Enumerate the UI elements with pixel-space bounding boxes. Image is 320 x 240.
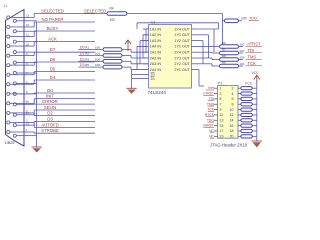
- svg-text:1Y3 OUT: 1Y3 OUT: [174, 33, 190, 37]
- svg-text:2Y1 OUT: 2Y1 OUT: [174, 68, 190, 72]
- svg-text:TDI: TDI: [248, 48, 255, 53]
- svg-text:100: 100: [95, 63, 100, 67]
- svg-text:D3: D3: [80, 63, 85, 67]
- svg-text:100: 100: [241, 17, 247, 21]
- svg-text:14: 14: [230, 119, 234, 123]
- svg-text:D6: D6: [50, 57, 56, 62]
- svg-text:74LS244: 74LS244: [148, 90, 167, 95]
- svg-text:2Y4 OUT: 2Y4 OUT: [174, 51, 190, 55]
- svg-text:100: 100: [95, 57, 100, 61]
- svg-text:100: 100: [110, 18, 116, 22]
- svg-text:100: 100: [240, 49, 245, 53]
- svg-text:SELECTED: SELECTED: [41, 8, 64, 13]
- svg-text:13: 13: [26, 14, 30, 18]
- svg-text:100: 100: [240, 56, 245, 60]
- svg-text:15: 15: [220, 124, 224, 128]
- svg-text:P1: P1: [218, 82, 222, 86]
- svg-text:1Y2 OUT: 1Y2 OUT: [174, 39, 190, 43]
- svg-text:NO PAPER: NO PAPER: [42, 17, 64, 22]
- svg-text:2A1 IN: 2A1 IN: [150, 51, 162, 55]
- svg-text:AUTOFD: AUTOFD: [41, 122, 59, 127]
- svg-text:SELIN: SELIN: [44, 105, 56, 110]
- svg-text:9: 9: [220, 108, 222, 112]
- svg-text:nTRST: nTRST: [248, 42, 261, 47]
- svg-text:TMS: TMS: [248, 55, 257, 60]
- svg-text:Vref: Vref: [208, 86, 214, 90]
- svg-text:R1: R1: [85, 46, 89, 50]
- svg-text:RTCK: RTCK: [205, 113, 215, 117]
- svg-text:100: 100: [240, 62, 245, 66]
- svg-text:1A4 IN: 1A4 IN: [150, 45, 162, 49]
- svg-text:BUSY: BUSY: [47, 26, 59, 31]
- svg-text:NC: NC: [209, 134, 214, 138]
- svg-text:TDO: TDO: [249, 17, 257, 21]
- svg-text:TMS: TMS: [207, 102, 215, 106]
- svg-text:D7: D7: [50, 47, 56, 52]
- svg-text:11: 11: [220, 113, 224, 117]
- svg-text:2A4 IN: 2A4 IN: [150, 68, 162, 72]
- svg-text:100: 100: [95, 52, 100, 56]
- svg-text:1: 1: [26, 128, 28, 132]
- svg-text:100: 100: [240, 43, 245, 47]
- svg-text:2A2 IN: 2A2 IN: [150, 56, 162, 60]
- svg-text:6: 6: [232, 97, 234, 101]
- svg-text:ERROR: ERROR: [42, 99, 58, 104]
- svg-text:R7: R7: [222, 48, 226, 52]
- svg-text:100: 100: [95, 46, 100, 50]
- svg-text:7: 7: [220, 102, 222, 106]
- svg-text:2Y3 OUT: 2Y3 OUT: [174, 56, 190, 60]
- svg-text:TDI: TDI: [209, 97, 215, 101]
- svg-text:R8: R8: [222, 54, 226, 58]
- svg-text:J1: J1: [3, 3, 8, 8]
- svg-text:2A3 IN: 2A3 IN: [150, 62, 162, 66]
- svg-text:D2: D2: [47, 110, 53, 115]
- svg-text:TCK: TCK: [207, 108, 215, 112]
- svg-text:D5: D5: [50, 66, 56, 71]
- svg-text:nTRST: nTRST: [203, 92, 214, 96]
- svg-text:DB25: DB25: [5, 141, 15, 145]
- svg-text:18: 18: [230, 129, 234, 133]
- svg-text:13: 13: [220, 119, 224, 123]
- svg-text:D4: D4: [50, 75, 56, 80]
- svg-text:4: 4: [232, 92, 234, 96]
- svg-text:JTAG Header 2X10: JTAG Header 2X10: [210, 142, 248, 147]
- svg-text:1A3 IN: 1A3 IN: [150, 39, 162, 43]
- svg-text:11: 11: [26, 33, 29, 37]
- svg-text:1A1 IN: 1A1 IN: [150, 27, 162, 31]
- svg-text:U1: U1: [151, 21, 155, 25]
- svg-text:10: 10: [230, 108, 234, 112]
- svg-text:3: 3: [220, 92, 222, 96]
- svg-text:1Y1 OUT: 1Y1 OUT: [174, 45, 190, 49]
- svg-text:2G: 2G: [151, 77, 156, 81]
- svg-text:ACK: ACK: [48, 36, 57, 41]
- svg-text:TCK: TCK: [248, 61, 256, 66]
- svg-text:1A2 IN: 1A2 IN: [150, 33, 162, 37]
- svg-text:SELECTED: SELECTED: [84, 9, 106, 14]
- svg-text:R2: R2: [85, 52, 89, 56]
- svg-text:R3: R3: [85, 57, 89, 61]
- svg-text:12: 12: [230, 113, 234, 117]
- svg-text:1: 1: [220, 86, 222, 90]
- svg-text:19: 19: [220, 135, 224, 139]
- svg-text:NC: NC: [209, 129, 214, 133]
- svg-text:STROBE: STROBE: [41, 128, 59, 133]
- svg-text:R6: R6: [222, 41, 226, 45]
- svg-text:D0: D0: [47, 88, 53, 93]
- svg-text:TDO: TDO: [207, 118, 215, 122]
- svg-text:D0: D0: [80, 46, 85, 50]
- svg-text:16: 16: [230, 124, 234, 128]
- svg-text:R5: R5: [85, 63, 89, 67]
- svg-text:D2: D2: [80, 57, 85, 61]
- svg-text:VCC: VCC: [252, 71, 260, 75]
- svg-text:10: 10: [26, 42, 30, 46]
- svg-text:R4: R4: [110, 6, 114, 10]
- svg-text:20: 20: [230, 135, 234, 139]
- svg-text:5: 5: [220, 97, 222, 101]
- svg-text:D1: D1: [80, 52, 85, 56]
- svg-text:2: 2: [232, 86, 234, 90]
- svg-text:1Y4 OUT: 1Y4 OUT: [174, 27, 190, 31]
- svg-text:17: 17: [220, 129, 224, 133]
- svg-text:R9: R9: [222, 61, 226, 65]
- svg-text:nSRST: nSRST: [203, 124, 214, 128]
- svg-text:12: 12: [26, 23, 30, 27]
- svg-text:8: 8: [232, 102, 234, 106]
- svg-text:2Y2 OUT: 2Y2 OUT: [174, 62, 190, 66]
- svg-text:VCC: VCC: [245, 82, 253, 86]
- svg-text:D3: D3: [47, 116, 53, 121]
- svg-text:INIT: INIT: [46, 93, 54, 98]
